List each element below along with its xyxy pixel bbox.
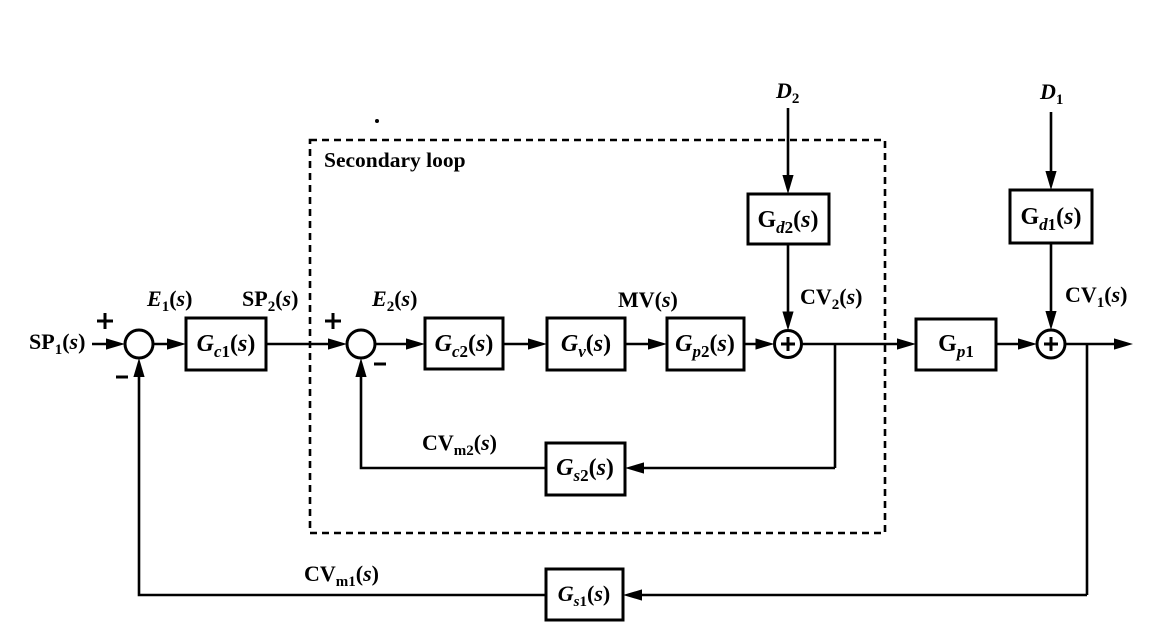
wire summing junction 3 to Gp1: [802, 343, 903, 346]
svg-text:Gp2(s): Gp2(s): [675, 331, 735, 361]
plus sign at summing junction 2: [325, 313, 341, 329]
wire Gd1 to summing junction 4: [1050, 243, 1053, 317]
svg-text:CVm1(s): CVm1(s): [304, 561, 379, 590]
plus sign at summing junction 1: [97, 313, 113, 329]
svg-text:Gd1(s): Gd1(s): [1020, 204, 1081, 234]
plus sign inside summing junction 3: [781, 337, 795, 351]
summing junction 2: [347, 330, 375, 358]
dashed box Secondary loop: [310, 140, 885, 533]
svg-text:Gd2(s): Gd2(s): [757, 207, 818, 237]
summing junction 3: [775, 331, 802, 358]
block Gs1: [546, 569, 623, 620]
wire D1 to Gd1: [1050, 112, 1053, 176]
svg-text:Gv(s): Gv(s): [561, 331, 611, 361]
svg-text:Gp1: Gp1: [938, 331, 974, 361]
plus sign inside summing junction 4: [1044, 337, 1058, 351]
svg-text:CV2(s): CV2(s): [800, 284, 863, 313]
minus sign at summing junction 2: [374, 363, 386, 366]
svg-text:CVm2(s): CVm2(s): [422, 430, 497, 459]
svg-text:Secondary loop: Secondary loop: [324, 148, 466, 172]
svg-text:Gc1(s): Gc1(s): [197, 331, 256, 361]
wire summing junction 1 to Gc1: [153, 343, 172, 346]
wire Gp1 to summing junction 4: [996, 343, 1023, 346]
block Gd1: [1010, 190, 1092, 243]
svg-text:E2(s): E2(s): [371, 286, 417, 315]
wire output from summing junction 4: [1065, 343, 1119, 346]
minus sign at summing junction 1: [116, 376, 128, 379]
summing junction 4: [1037, 330, 1065, 358]
wire D2 to Gd2: [787, 108, 790, 180]
wire Gc2 to Gv: [503, 343, 533, 346]
wire inner feedback CV2 tap to Gs2: [639, 467, 835, 470]
svg-text:D1: D1: [1039, 79, 1063, 108]
block Gc2: [425, 318, 503, 369]
block Gd2: [748, 194, 829, 244]
wire Gs2 to summing junction 2: [361, 372, 546, 468]
svg-text:SP1(s): SP1(s): [29, 329, 85, 358]
block Gc1: [186, 318, 266, 370]
block Gv: [547, 318, 625, 370]
summing junction 1: [125, 330, 153, 358]
wire outer feedback output tap to Gs1: [637, 594, 1087, 597]
wire Gv to Gp2: [625, 343, 653, 346]
svg-text:Gs1(s): Gs1(s): [558, 581, 610, 610]
svg-text:CV1(s): CV1(s): [1065, 282, 1128, 311]
block Gp1: [916, 319, 996, 370]
svg-text:E1(s): E1(s): [146, 286, 192, 315]
svg-text:SP2(s): SP2(s): [242, 286, 298, 315]
wire Gp2 to summing junction 3: [744, 343, 761, 346]
wire Gd2 to summing junction 3: [787, 244, 790, 317]
stray dot artifact: [375, 119, 379, 123]
block Gs2: [546, 443, 625, 495]
wire SP1 input to summing junction 1: [92, 343, 110, 346]
wire tap down from output line: [1086, 344, 1089, 595]
wire tap down from CV2 line: [834, 344, 837, 468]
svg-text:Gs2(s): Gs2(s): [556, 455, 614, 485]
wire Gs1 to summing junction 1: [139, 372, 546, 595]
block Gp2: [667, 318, 744, 370]
svg-text:MV(s): MV(s): [618, 287, 678, 312]
wire Gc1 to summing junction 2: [266, 343, 334, 346]
svg-text:Gc2(s): Gc2(s): [435, 331, 494, 361]
wire summing junction 2 to Gc2: [375, 343, 411, 346]
svg-text:D2: D2: [775, 78, 799, 107]
